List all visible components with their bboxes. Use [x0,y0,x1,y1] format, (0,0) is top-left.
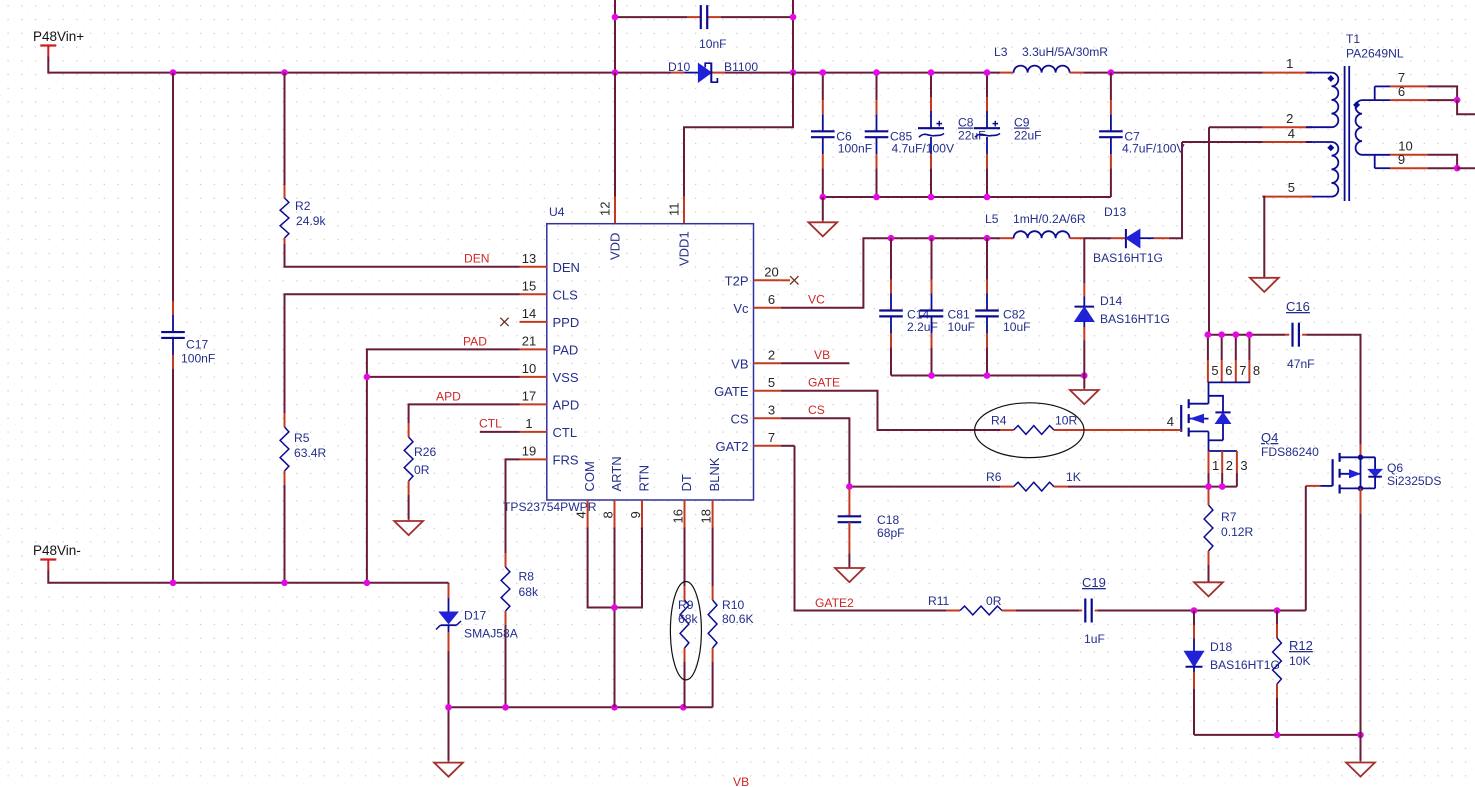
Q4 pin 1 [1208,451,1210,473]
value 0R [986,594,1002,608]
svg-text:VB: VB [733,775,749,787]
wire [931,347,933,375]
value 22uF [958,129,986,143]
wire [822,168,824,197]
U4 pin 17 (APD) [520,403,547,405]
U4 pin 5 (GATE) [754,390,781,392]
transformer T1 primary winding 1-2 [1306,73,1338,128]
value 68k [678,612,698,626]
T1 pin 6 number [1398,84,1405,99]
capacitor C16 pin [1302,334,1306,336]
svg-text:10uF: 10uF [948,320,976,334]
net label VB (bottom) [733,775,749,787]
inductor L3 [1014,66,1070,73]
wire [1208,565,1210,582]
resistor R10 [708,600,717,648]
label R26 [414,445,436,459]
capacitor C81 pin [931,333,933,347]
wire [48,571,448,583]
U4 pin 20 (T2P) [754,279,781,281]
wire [930,168,932,197]
junction [1233,331,1240,338]
value 3.3uH/5A/30mR [1022,45,1108,59]
wire [781,238,1000,308]
wire [876,73,878,101]
svg-text:3.3uH/5A/30mR: 3.3uH/5A/30mR [1022,45,1108,59]
capacitor C8 (polarized) [918,128,944,137]
wire [930,73,932,97]
svg-text:4.7uF/100V: 4.7uF/100V [892,142,955,156]
diode D14 pin [1083,327,1085,341]
label C82 [1003,308,1025,322]
junction [1454,165,1461,172]
U4 pin 6 (Vc) [754,307,781,309]
diode D14 pin [1083,283,1085,297]
svg-text:R7: R7 [1221,510,1237,524]
svg-text:R9: R9 [678,598,694,612]
svg-text:5: 5 [768,375,775,390]
U4 pin name T2P [725,273,749,288]
U4 pin name CS [730,411,748,426]
wire [1083,238,1085,283]
junction [1274,607,1281,614]
resistor R12 [1273,638,1282,684]
wire [285,294,520,413]
value 10R [1055,414,1077,428]
svg-text:CS: CS [730,411,748,426]
Q4 pin 3 [1236,451,1238,473]
label TPS23754PWPR [503,500,597,514]
T1 pin 4 number [1288,126,1295,141]
svg-text:R4: R4 [991,414,1007,428]
svg-text:C18: C18 [877,513,899,527]
svg-text:VDD1: VDD1 [677,231,692,266]
transformer T1 pin 4 [1263,141,1313,143]
resistor R5 [280,427,289,471]
label C6 [836,130,852,144]
svg-text:D10: D10 [668,60,690,74]
svg-text:0R: 0R [414,463,430,477]
svg-text:R10: R10 [722,598,744,612]
inductor L3 pin [1070,72,1084,74]
svg-text:DEN: DEN [464,252,490,266]
svg-text:U4: U4 [549,205,565,219]
junction [1205,483,1212,490]
ground [1070,376,1099,405]
svg-text:D17: D17 [464,609,486,623]
Q4 pin 4 number [1167,414,1174,429]
transistor Q4 (FDS86240) [1181,382,1230,451]
U4 pin 3 number [768,402,775,417]
Q6 internal node dot [1358,455,1364,461]
T1 secondary bracket [1375,86,1390,100]
svg-text:22uF: 22uF [958,129,986,143]
junction [1205,331,1212,338]
svg-text:3: 3 [1240,458,1247,473]
svg-text:FDS86240: FDS86240 [1261,445,1319,459]
value 68pF [877,526,905,540]
T1 secondary bracket [1375,155,1390,168]
svg-text:2.2uF: 2.2uF [907,320,938,334]
wire [1110,168,1112,197]
svg-text:16: 16 [671,509,686,523]
wire [409,404,520,423]
capacitor C81 lead [931,316,933,333]
svg-text:4: 4 [574,511,589,518]
U4 pin 14 number [522,306,536,321]
junction [612,14,619,21]
wire [822,73,824,101]
capacitor C19 pin [1095,610,1098,612]
Q4 pin 5 [1207,360,1209,382]
resistor R7 pin [1208,551,1210,565]
svg-text:COM: COM [582,461,597,491]
svg-text:R11: R11 [928,594,950,608]
svg-text:R2: R2 [295,199,311,213]
wire [1428,155,1458,168]
net label DEN [464,252,490,266]
label T1 [1346,32,1360,46]
svg-text:BAS16HT1G: BAS16HT1G [1093,251,1163,265]
U4 pin 20 number [764,264,778,279]
capacitor C82 pin [986,280,988,294]
junction [846,483,853,490]
value 47nF [1287,357,1315,371]
svg-text:68k: 68k [678,612,698,626]
U4 pin 12 number [598,202,613,216]
svg-text:GATE: GATE [714,384,749,399]
svg-text:3: 3 [768,402,775,417]
capacitor C18 pin [848,539,850,553]
svg-text:PAD: PAD [463,335,487,349]
label Q6 [1387,461,1403,475]
junction [611,604,618,611]
wire [1221,473,1223,487]
junction [1454,97,1461,104]
svg-text:CTL: CTL [479,417,502,431]
U4 pin 18 number [699,509,714,523]
wire [1193,689,1195,735]
label B1100 [724,60,758,74]
wire [684,528,686,587]
capacitor C17 [161,332,185,338]
Q6 internal node dot [1358,486,1364,492]
svg-text:CTL: CTL [553,425,578,440]
svg-text:C9: C9 [1014,116,1030,130]
T1 pin 9 number [1398,152,1405,167]
junction [1246,331,1253,338]
U4 pin name BLNK [707,457,722,491]
U4 pin name VSS [553,370,579,385]
transformer T1 pin 1 [1263,72,1313,74]
capacitor C85 lead [876,114,878,131]
wire [712,662,714,707]
svg-text:R26: R26 [414,445,436,459]
label R11 [928,594,950,608]
svg-text:19: 19 [522,443,536,458]
U4 pin 16 (DT) [684,500,686,528]
label D10 [668,60,690,74]
U4 pin 12 [614,197,616,224]
capacitor C6 lead [822,137,824,154]
inductor L5 pin [1070,237,1084,239]
diode D17 pin [448,632,450,651]
svg-text:PPD: PPD [553,315,580,330]
junction [984,69,991,76]
svg-text:R6: R6 [986,470,1002,484]
junction [1081,372,1088,379]
T1 phase dot [1327,75,1334,82]
svg-text:22uF: 22uF [1014,129,1042,143]
resistor R4 pin [1000,429,1014,431]
U4 pin 15 number [522,278,536,293]
ground [394,495,423,535]
diode D13 (BAS16HT1G) [1126,229,1140,248]
U4 pin 7 (GAT2) [754,445,781,447]
Q4 pin 7 number [1239,363,1246,378]
resistor R11 [960,606,1002,615]
wire [931,238,933,279]
svg-text:GATE2: GATE2 [815,596,854,610]
resistor R11 pin [946,610,960,612]
wire [1428,167,1458,169]
U4 pin 1 number [525,416,532,431]
value 0R [414,463,430,477]
wire [1457,100,1475,114]
diode D18 pin [1193,625,1195,639]
resistor R11 pin [1002,610,1016,612]
svg-text:8: 8 [1253,363,1260,378]
label C7 [1124,130,1140,144]
svg-text:21: 21 [522,333,536,348]
resistor R9 [680,600,689,648]
junction [281,69,288,76]
svg-text:DT: DT [679,474,694,491]
value 80.6K [722,612,754,626]
resistor R5 pin [284,471,286,485]
junction [984,235,991,242]
wire [1276,698,1278,735]
diode D18 pin [1193,672,1195,689]
inductor L5 pin [1000,237,1014,239]
capacitor C82 lead [986,294,988,311]
wire [725,72,1000,74]
svg-text:47nF: 47nF [1287,357,1315,371]
value 0.12R [1221,525,1254,539]
wire [684,662,686,707]
U4 pin name VDD [608,233,623,260]
label R10 [722,598,744,612]
value PA2649NL [1346,47,1404,61]
U4 pin 4 (COM) [587,500,589,528]
capacitor C6 pin [822,154,824,168]
wire [614,528,616,708]
svg-text:100nF: 100nF [181,352,215,366]
svg-text:4.7uF/100V: 4.7uF/100V [1122,142,1185,156]
transformer T1 pin 5 lead [1263,196,1313,198]
junction [611,704,618,711]
label C19 [1082,575,1106,590]
resistor R7 [1204,505,1213,551]
U4 pin 8 (ARTN) [614,500,616,528]
T2P pin extension [781,279,790,281]
svg-text:ARTN: ARTN [609,456,624,491]
wire [986,347,988,375]
U4 pin 9 (RTN) [641,500,643,528]
diode D10 pin [671,72,685,74]
capacitor C8 pin [930,97,932,111]
label D17 [464,609,486,623]
svg-text:R5: R5 [294,431,310,445]
resistor R26 pin [408,481,410,495]
T1 phase dot [1327,144,1334,151]
wire [986,73,988,97]
U4 pin name APD [553,397,580,412]
U4 pin name Vc [733,301,749,316]
capacitor C6 [811,131,835,137]
svg-text:Q6: Q6 [1387,461,1403,475]
wire [890,238,892,279]
junction [364,374,371,381]
capacitor C19 pin [1079,610,1082,612]
svg-text:B1100: B1100 [724,60,758,74]
capacitor C82 [975,311,999,317]
svg-text:PA2649NL: PA2649NL [1346,47,1404,61]
junction [445,704,452,711]
capacitor C6 pin [822,100,824,114]
junction [984,194,991,201]
svg-text:P48Vin-: P48Vin- [33,543,81,558]
label R8 [519,570,535,584]
wire [449,706,713,708]
resistor R6 [1014,482,1054,491]
wire [781,391,1000,430]
ground [808,197,837,236]
wire [823,196,1111,198]
svg-text:GAT2: GAT2 [716,439,749,454]
value 1mH/0.2A/6R [1013,212,1086,226]
wire [1428,86,1458,100]
junction [1191,607,1198,614]
resistor R6 pin [1054,486,1068,488]
junction [928,69,935,76]
wire [1194,734,1361,736]
value 4.7uF/100V [1122,142,1185,156]
Q4 pin 6 [1221,360,1223,382]
IC U4 box [547,224,754,500]
label R12 [1289,638,1313,653]
T1 phase dot [1353,101,1360,108]
value BAS16HT1G [1093,251,1163,265]
wire [890,347,892,375]
resistor R12 pin [1276,624,1278,638]
U4 pin 13 number [522,251,536,266]
transistor Q6 (Si2325DS) [1333,453,1382,494]
wire [1083,341,1085,376]
T1 pin 7 number [1398,70,1405,85]
svg-text:1uF: 1uF [1084,632,1105,646]
wire [1083,237,1111,239]
label D18 [1210,640,1232,654]
label R4 [991,414,1007,428]
svg-text:VB: VB [814,348,830,362]
U4 pin name ARTN [609,456,624,491]
junction [790,14,797,21]
T1 pin 10 number [1398,139,1412,154]
svg-text:7: 7 [1239,363,1246,378]
junction [888,235,895,242]
wire [1207,335,1209,360]
label L5 [985,212,999,226]
port P48Vin- [40,560,56,571]
resistor R26 [404,437,413,481]
transistor Q6 pin [1360,445,1362,458]
net label GATE2 [815,596,854,610]
wire [1068,486,1237,488]
svg-text:CS: CS [808,403,825,417]
svg-text:C8: C8 [958,116,974,130]
U4 pin 21 (PAD) [520,348,547,350]
wire [1360,514,1362,735]
transformer T1 pin 10 [1390,154,1428,156]
Q4 pin 2 [1221,451,1223,473]
svg-text:T2P: T2P [725,273,749,288]
capacitor C8 pin [930,154,932,168]
diode D10 lead [685,72,699,74]
junction [1274,732,1281,739]
svg-text:6: 6 [1225,363,1232,378]
capacitor C7 lead [1110,137,1112,154]
resistor R2 pin [284,185,286,198]
value 68k [519,585,539,599]
wire [1457,167,1475,169]
value 10nF [699,37,727,51]
net label APD [436,390,461,404]
svg-text:8: 8 [601,511,616,518]
U4 pin 14 (PPD) [520,321,547,323]
U4 pin 21 number [522,333,536,348]
wire [614,73,616,197]
Q4 pin 1 number [1212,458,1219,473]
svg-text:R8: R8 [519,570,535,584]
Q4 pin 6 number [1225,363,1232,378]
svg-text:80.6K: 80.6K [722,612,754,626]
U4 pin 3 (CS) [754,417,781,419]
T1 pin 2 number [1286,111,1293,126]
diode D10 pin [711,72,725,74]
value 2.2uF [907,320,938,334]
inductor L3 pin [1000,72,1014,74]
capacitor C14 [879,311,903,317]
Q4 source bracket [1209,450,1237,452]
wire [615,528,643,608]
U4 pin name DT [679,474,694,491]
wire [1209,126,1263,128]
wire [1208,334,1285,336]
svg-text:2: 2 [1286,111,1293,126]
transistor Q6 gate pin [1306,485,1321,487]
resistor R10 pin [712,586,714,600]
wire [588,528,615,608]
capacitor C7 pin [1110,100,1112,114]
junction [170,69,177,76]
wire [848,553,850,568]
port P48Vin+ label [33,29,84,44]
U4 pin name DEN [553,260,580,275]
Q4 pin 8 number [1253,363,1260,378]
U4 pin name VB [731,356,748,371]
junction [364,580,371,587]
